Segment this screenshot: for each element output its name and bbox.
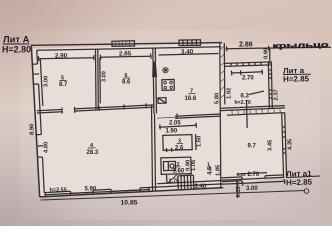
hatch on right thick wall: [220, 46, 225, 98]
svg-text:28.3: 28.3: [87, 150, 99, 156]
wall stub below 9.7: [222, 181, 242, 182]
svg-text:1.50: 1.50: [197, 136, 203, 147]
svg-text:2.85: 2.85: [119, 50, 132, 57]
svg-text:4.5: 4.5: [208, 166, 214, 175]
dim line 5.90 room4: [45, 190, 151, 195]
dim line 3.40 corridor: [157, 181, 222, 184]
dim line 3.00 room5 vertical: [40, 59, 43, 106]
svg-text:Лит А: Лит А: [3, 35, 30, 45]
svg-text:1.90: 1.90: [166, 129, 178, 135]
partition rooms 5/6: [95, 49, 98, 110]
svg-text:1.85: 1.85: [216, 164, 222, 176]
svg-text:5.90: 5.90: [85, 187, 97, 193]
door leaf tambour/9.7: [246, 100, 249, 128]
svg-text:2.90: 2.90: [55, 52, 68, 59]
chimney hatched above top wall (room7): [179, 40, 201, 46]
vent box right of mid wall: [158, 98, 166, 104]
room7 south wall with door gap: [175, 114, 220, 116]
svg-text:4.35: 4.35: [288, 138, 294, 150]
gas stove room7: [162, 79, 174, 90]
svg-text:0.20: 0.20: [237, 172, 246, 177]
svg-text:3.00: 3.00: [246, 186, 258, 192]
svg-text:2.86: 2.86: [239, 41, 253, 48]
dim line 2.05: [159, 125, 197, 127]
svg-text:2.6: 2.6: [175, 145, 184, 151]
wall room4 east (vertical mid): [152, 105, 153, 191]
window W1 left wall room5: [32, 63, 37, 65]
porch 0.99 dim vertical: [269, 48, 271, 64]
overall dim line 10.85: [41, 191, 306, 201]
flue black rect on 6/7 wall: [153, 62, 157, 77]
wall top exterior inner: [37, 47, 222, 51]
building interior fill: [31, 44, 223, 197]
tambour 2.70 dim line: [231, 72, 263, 73]
wall under rooms 5/6 (room4 north), door gap x62-74: [37, 110, 62, 111]
svg-text:8.6: 8.6: [122, 80, 131, 86]
window W3 bottom wall: [70, 191, 72, 195]
porch dim line 2.86 / kryltso underline: [226, 47, 332, 49]
window W2 left wall room4: [36, 134, 41, 136]
svg-text:0.35: 0.35: [236, 185, 242, 197]
svg-text:Н=2.85: Н=2.85: [283, 74, 310, 84]
wall left exterior outer: [31, 45, 39, 197]
door jamb ticks on room4 north wall: [61, 108, 63, 114]
tambour south wall / lit a1 north: [221, 106, 285, 109]
dim line 3.00 room6 vertical: [99, 58, 102, 104]
svg-text:8.90: 8.90: [30, 124, 36, 135]
svg-text:4.80: 4.80: [44, 142, 50, 153]
svg-text:9.7: 9.7: [248, 144, 257, 150]
dim line 2.85 room6: [100, 56, 152, 57]
svg-text:2.70: 2.70: [242, 76, 254, 82]
washbasin in room 2: [163, 161, 175, 170]
room 2 box: [161, 157, 191, 174]
dim 0.35 line: [236, 180, 239, 198]
svg-text:1.05: 1.05: [191, 159, 197, 171]
svg-text:0.99: 0.99: [264, 47, 270, 59]
wall rooms 6/7 with door gap: [152, 48, 154, 62]
wall top exterior outer: [31, 43, 222, 46]
vent shaft above top wall (room6): [112, 41, 135, 47]
dim line 2.70 above: [237, 173, 267, 174]
svg-text:Н=2.85: Н=2.85: [286, 178, 313, 188]
dim line 3.40 room7: [159, 54, 219, 56]
stairs (vertical risers): [177, 176, 179, 189]
window W4 bottom wall: [110, 189, 112, 193]
svg-text:1.92: 1.92: [227, 88, 233, 99]
svg-text:3.40: 3.40: [195, 184, 207, 190]
svg-text:h=2.70: h=2.70: [235, 100, 251, 106]
wall bottom exterior inner: segments around windows: [44, 191, 70, 192]
leader line 6.3: [249, 91, 264, 95]
svg-text:16.6: 16.6: [185, 96, 197, 102]
svg-text:крыльцо: крыльцо: [272, 40, 329, 50]
svg-text:10.85: 10.85: [121, 200, 138, 207]
door arc room2 south: [166, 175, 169, 184]
svg-text:8.7: 8.7: [59, 82, 68, 88]
svg-text:6.3: 6.3: [241, 94, 250, 100]
room 3 box: [163, 135, 192, 151]
svg-text:5.80: 5.80: [215, 93, 221, 104]
lit a1 south wall with window: [222, 177, 285, 180]
wall left exterior inner: segments around windows: [36, 50, 39, 64]
tambour east wall with windows: [268, 61, 269, 108]
svg-text:2.70: 2.70: [248, 172, 260, 178]
svg-text:Н=2.80: Н=2.80: [2, 44, 31, 54]
tambour north wall: [225, 62, 271, 64]
lit a1 east wall: [282, 113, 284, 178]
dim line 3.00 below: [237, 181, 286, 183]
svg-text:h=2.55: h=2.55: [50, 188, 67, 194]
svg-text:2.37: 2.37: [274, 89, 280, 100]
svg-text:3.40: 3.40: [181, 48, 194, 55]
svg-text:3.00: 3.00: [102, 71, 108, 82]
wall right main house thick upper: [220, 43, 221, 188]
dim line 2.90 room5: [38, 58, 95, 59]
svg-text:3.00: 3.00: [44, 76, 50, 87]
svg-text:1.60: 1.60: [173, 169, 185, 175]
wall bottom exterior outer: [40, 188, 224, 197]
circle pen mark: [304, 189, 309, 194]
svg-text:2.05: 2.05: [169, 121, 181, 127]
boiler circle room7: [163, 68, 168, 73]
svg-text:3.45: 3.45: [268, 139, 274, 151]
svg-text:1.75: 1.75: [169, 179, 180, 185]
